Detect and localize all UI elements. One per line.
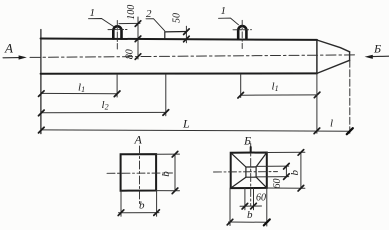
svg-text:1: 1 — [221, 5, 227, 17]
callout label 1 (right loop) — [219, 5, 239, 25]
dimension 50 (step height) — [172, 13, 190, 43]
section Б dimension 60 (bottom, tip width) — [240, 188, 266, 210]
dimension l2 — [39, 75, 169, 116]
svg-text:b: b — [289, 170, 301, 176]
svg-text:L: L — [182, 117, 190, 131]
svg-text:l: l — [330, 118, 333, 130]
pile body outline — [41, 30, 317, 134]
svg-text:100: 100 — [126, 5, 137, 20]
lifting loop 2 (right) — [233, 20, 252, 48]
section Б dimension b (right) — [267, 150, 305, 191]
lifting loop 1 (left) — [108, 21, 127, 50]
svg-text:60: 60 — [256, 193, 266, 204]
svg-text:60: 60 — [272, 179, 283, 189]
svg-text:Б: Б — [243, 134, 251, 148]
dimension L and l (bottom chain) — [39, 117, 353, 135]
section A dimension b (right) — [156, 151, 179, 193]
svg-text:l1: l1 — [272, 81, 279, 94]
svg-text:A: A — [134, 133, 143, 147]
svg-text:50: 50 — [172, 13, 183, 23]
section Б square — [231, 153, 267, 189]
section Б dimension b (bottom) — [227, 188, 270, 226]
dimension l1 left — [39, 75, 120, 97]
extension line below tip — [349, 60, 351, 133]
view arrow Б — [365, 42, 389, 59]
section Б tip pyramid (diagonals + flat tip square) — [231, 153, 267, 189]
svg-text:Б: Б — [373, 42, 381, 56]
svg-text:A: A — [4, 41, 13, 56]
fixing mark item 2 (step on top) — [165, 32, 187, 39]
svg-text:1: 1 — [90, 7, 96, 19]
section Б dimension 60 (right, tip height) — [256, 163, 289, 188]
extension line below taper start — [316, 74, 318, 134]
svg-text:l2: l2 — [102, 99, 109, 112]
section Б centerlines — [214, 144, 278, 206]
callout label 1 (left loop) — [89, 7, 115, 27]
svg-text:b: b — [160, 171, 172, 177]
svg-text:b: b — [247, 209, 253, 221]
callout label 2 (fixing mark) — [146, 8, 165, 31]
longitudinal centerline — [30, 55, 355, 58]
svg-text:2: 2 — [146, 8, 152, 20]
section A square — [121, 154, 157, 191]
dimension l1 right — [238, 74, 320, 98]
svg-text:b: b — [139, 200, 145, 212]
pile tip (taper) — [317, 40, 350, 73]
section A dimension b (bottom) — [118, 191, 159, 217]
svg-text:80: 80 — [125, 49, 136, 59]
dimension 100 (loop height) and 80 — [119, 5, 141, 60]
svg-text:l1: l1 — [78, 82, 85, 95]
section A centerlines — [107, 146, 173, 204]
view arrow A — [3, 41, 27, 60]
